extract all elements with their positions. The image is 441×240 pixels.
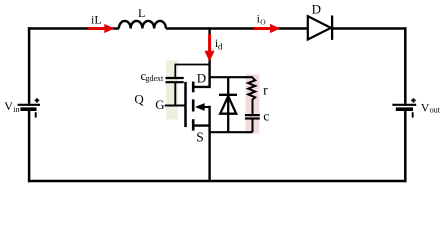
resistor r (248, 77, 255, 114)
svg-text:S: S (196, 129, 204, 144)
channel segment middle (192, 99, 195, 111)
svg-text:V: V (4, 99, 13, 113)
battery Vout (392, 104, 416, 106)
node junction drain (208, 27, 210, 64)
drain lead wire (193, 64, 209, 89)
current arrow iL (88, 27, 105, 30)
rc snubber highlight box (pink) (246, 74, 260, 133)
channel segment top (192, 82, 195, 93)
svg-text:d: d (218, 41, 223, 51)
body arrow (204, 106, 210, 108)
svg-text:c: c (263, 109, 269, 124)
wire right rail (404, 27, 407, 104)
cgdext highlight box (green) (166, 61, 178, 120)
svg-text:Q: Q (134, 91, 144, 106)
svg-text:V: V (421, 100, 430, 114)
wire drain to snubber (210, 76, 253, 78)
gate bar (184, 82, 187, 127)
capacitor cgdext (166, 77, 184, 79)
wire top rail left segment (28, 27, 119, 29)
svg-text:O: O (260, 18, 266, 27)
capacitor c (245, 114, 260, 116)
wire top rail right segment (332, 27, 406, 29)
battery Vin (18, 104, 40, 106)
body diode of Q (227, 77, 229, 132)
wire top rail middle segment (166, 27, 308, 29)
current arrow iO (254, 27, 272, 30)
wire bottom rail (28, 180, 407, 183)
svg-text:L: L (138, 6, 145, 20)
svg-text:r: r (263, 84, 268, 99)
current arrow id (208, 34, 211, 53)
diode D (308, 16, 331, 39)
wire left rail (28, 27, 31, 104)
gate lead wire (165, 104, 186, 106)
svg-text:gdext: gdext (146, 74, 165, 83)
svg-text:iL: iL (91, 12, 102, 26)
source lead wire (193, 106, 209, 182)
svg-text:G: G (155, 97, 164, 112)
svg-text:D: D (197, 71, 206, 86)
wire drain node to cgdext (175, 65, 209, 78)
wire source to snubber (210, 131, 253, 133)
svg-text:D: D (312, 1, 321, 16)
svg-text:out: out (430, 105, 441, 114)
svg-text:in: in (13, 105, 19, 114)
inductor L (119, 21, 166, 29)
channel segment bottom (192, 119, 195, 130)
